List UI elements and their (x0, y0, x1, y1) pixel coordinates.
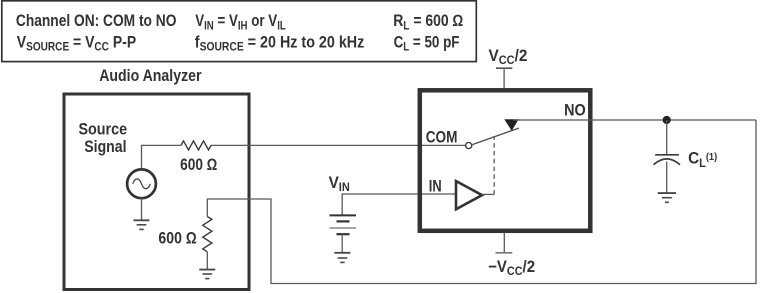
svg-text:Source: Source (79, 121, 128, 139)
label: NO pin (564, 102, 586, 120)
audio analyzer box (64, 94, 249, 290)
label: 600 ohm (RL) (158, 229, 197, 247)
wire: VCC/2 to DUT (503, 68, 505, 88)
wire: CL to ground (666, 162, 668, 194)
label: CL(1) (688, 150, 717, 170)
svg-text:Channel ON: COM to NO: Channel ON: COM to NO (16, 12, 177, 30)
power rail -VCC/2 (496, 252, 513, 254)
label: VCC/2 (489, 47, 528, 67)
wire: source top to COM net (142, 145, 182, 169)
switch pole circle (COM contact) (466, 142, 472, 148)
wire: junction to CL (666, 120, 668, 154)
switch blade (472, 128, 519, 145)
label: Audio Analyzer (99, 67, 201, 85)
svg-text:COM: COM (426, 129, 458, 148)
source V1 (sine generator) (127, 169, 156, 198)
label: RL = 600 ohm (393, 12, 463, 32)
conditions box (2, 1, 477, 62)
DUT box (analog switch) (420, 90, 591, 231)
power rail VCC/2 (496, 67, 512, 69)
wire: source bottom to ground (141, 198, 143, 220)
wire: buffer output (482, 193, 494, 195)
svg-text:IN: IN (429, 178, 442, 196)
buffer driver U1 (456, 181, 482, 209)
label: IN pin (429, 178, 442, 196)
wire: DUT bottom to -VCC/2 (503, 233, 505, 253)
svg-text:Audio Analyzer: Audio Analyzer (99, 67, 201, 85)
svg-text:600 Ω: 600 Ω (180, 156, 217, 174)
svg-text:NO: NO (564, 102, 586, 120)
svg-text:Signal: Signal (84, 138, 126, 156)
dashed actuation line (493, 137, 495, 194)
capacitor CL (654, 155, 681, 165)
ground (VIN battery) (334, 253, 350, 263)
label: VIN (329, 174, 350, 194)
wire: NO to junction and load loop (513, 119, 756, 121)
ground (RL) (199, 270, 215, 279)
ground (source) (134, 220, 150, 229)
label: Source Signal (79, 121, 128, 139)
wire: RL top node to loop (207, 120, 756, 284)
label: COM pin (426, 129, 458, 148)
ground (CL) (658, 193, 676, 202)
wire: resistor to COM switch pole (211, 144, 465, 146)
wire: battery to ground (341, 234, 343, 253)
label: CL = 50 pF (394, 33, 460, 54)
label: fSOURCE = 20 Hz to 20 kHz (195, 34, 365, 54)
label: VSOURCE = VCC P-P (17, 34, 136, 54)
label: Channel ON: COM to NO (16, 12, 177, 30)
resistor 600ohm horizontal (181, 141, 211, 150)
NO contact triangle (504, 119, 518, 131)
junction node (663, 116, 671, 124)
label: 600 ohm (series resistor) (180, 156, 217, 174)
label: VIN = VIH or VIL (195, 12, 286, 33)
wire: RL bottom to ground (206, 252, 208, 270)
battery VIN (330, 215, 357, 234)
resistor 600ohm vertical (RL) (203, 217, 212, 252)
label: -VCC/2 (488, 258, 535, 278)
svg-text:600 Ω: 600 Ω (158, 229, 197, 247)
wire: VIN source to IN pin (342, 194, 456, 215)
